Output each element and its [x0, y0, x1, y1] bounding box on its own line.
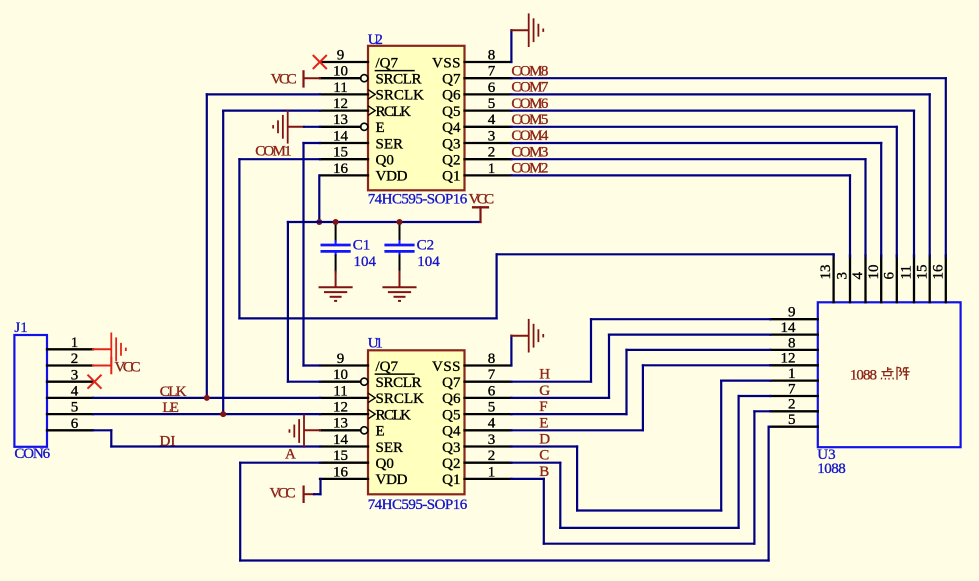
net label LE	[162, 400, 179, 416]
U3 pin 9 left stub + number	[770, 305, 818, 321]
svg-text:Q7: Q7	[442, 72, 461, 88]
junction CLK	[204, 395, 210, 401]
net label COM7	[511, 80, 549, 96]
capacitor C1	[321, 222, 351, 272]
svg-text:/Q7: /Q7	[376, 359, 399, 375]
ground at U2.VSS	[511, 13, 543, 47]
svg-text:7: 7	[488, 367, 496, 383]
svg-text:1: 1	[788, 366, 796, 382]
net COM2 wire U2 to U3	[511, 175, 850, 256]
svg-text:COM2: COM2	[511, 161, 548, 177]
svg-text:G: G	[539, 383, 550, 399]
svg-text:Q6: Q6	[442, 88, 461, 104]
svg-text:74HC595-SOP16: 74HC595-SOP16	[368, 497, 468, 513]
U1 pin 9 (/Q7) stub + number + name	[320, 351, 414, 375]
svg-text:C: C	[539, 448, 549, 464]
U1 pin 13 (E) stub + number + name	[320, 416, 385, 440]
svg-text:3: 3	[835, 272, 851, 280]
U1 pin 12 (RCLK) stub + number + name	[320, 400, 411, 424]
svg-text:9: 9	[337, 351, 345, 367]
U3 pin 10 top stub + number	[866, 255, 882, 302]
U1 pin 11 (SRCLK) stub + number + name	[320, 383, 424, 407]
svg-text:Q4: Q4	[442, 120, 461, 136]
svg-text:COM5: COM5	[511, 112, 548, 128]
svg-text:6: 6	[488, 80, 496, 96]
svg-text:4: 4	[850, 272, 866, 280]
U1 pin 14 (SER) stub + number + name	[320, 432, 403, 456]
U2 pin 16 (VDD) stub + number + name	[320, 161, 408, 185]
svg-text:2: 2	[788, 397, 796, 413]
svg-text:Q1: Q1	[442, 472, 460, 488]
net label B	[539, 464, 549, 480]
net label COM2	[511, 161, 548, 177]
svg-text:9: 9	[337, 47, 345, 63]
J1 pin 4 stub + number	[47, 384, 93, 400]
svg-text:11: 11	[333, 80, 347, 96]
svg-text:U2: U2	[368, 32, 383, 48]
svg-text:5: 5	[488, 400, 496, 416]
U1 pin 2 (Q2) stub + number + name	[442, 448, 511, 472]
svg-text:14: 14	[333, 432, 349, 448]
net LE branch vertical to U2.12	[223, 111, 320, 415]
ground below C1	[319, 272, 353, 301]
U3 pin 1 left stub + number	[770, 366, 818, 382]
svg-text:COM8: COM8	[511, 63, 548, 79]
svg-text:16: 16	[333, 464, 349, 480]
svg-text:VCC: VCC	[271, 71, 297, 87]
IC U2 74HC595-SOP16 body	[368, 46, 465, 191]
net LE wire J1.5 to U1.12	[93, 413, 320, 415]
svg-text:14: 14	[781, 320, 797, 336]
U1 pin 3 (Q3) stub + number + name	[442, 432, 511, 456]
net G wire U1 to U3	[511, 335, 770, 398]
svg-text:E: E	[376, 120, 385, 136]
net E wire U1 to U3	[511, 365, 770, 430]
svg-text:11: 11	[333, 383, 347, 399]
U3 pin 8 left stub + number	[770, 335, 818, 351]
svg-text:8: 8	[488, 351, 496, 367]
net H wire U1 to U3	[511, 319, 770, 382]
U3 pin 7 left stub + number	[770, 381, 818, 397]
svg-text:5: 5	[71, 400, 79, 416]
svg-text:SRCLK: SRCLK	[376, 391, 425, 407]
U3 pin 16 top stub + number	[930, 255, 946, 302]
U2 pin 3 (Q3) stub + number + name	[442, 128, 511, 152]
U1 pin 1 (Q1) stub + number + name	[442, 464, 511, 488]
U3 pin 12 left stub + number	[770, 351, 818, 367]
VCC label at J1 pin2	[115, 360, 141, 376]
U2 pin 2 (Q2) stub + number + name	[442, 145, 511, 169]
net label COM3	[511, 144, 548, 160]
svg-text:16: 16	[930, 264, 946, 280]
C2 designator	[417, 238, 435, 254]
power port VCC at U1.VDD	[304, 486, 314, 504]
svg-text:104: 104	[417, 254, 440, 270]
U2 pin 4 (Q4) stub + number + name	[442, 112, 511, 136]
svg-text:Q7: Q7	[442, 375, 461, 391]
junction VCC rail / C2	[397, 219, 403, 225]
svg-text:E: E	[539, 415, 548, 431]
U1 pin 7 (Q7) stub + number + name	[442, 367, 511, 391]
svg-text:Q0: Q0	[376, 456, 394, 472]
U2 pin 11 (SRCLK) stub + number + name	[320, 80, 424, 104]
label 1088 dot-matrix (1088 DianZhen) inside U3	[850, 367, 910, 384]
svg-text:6: 6	[881, 272, 897, 280]
net label COM1	[255, 144, 291, 160]
svg-text:J1: J1	[14, 320, 27, 336]
svg-text:SER: SER	[376, 136, 404, 152]
IC U1 74HC595-SOP16 body	[368, 350, 465, 494]
net B wire U1 to U3	[511, 411, 770, 543]
svg-text:COM7: COM7	[511, 80, 549, 96]
wire U1.VSS to ground	[510, 336, 512, 366]
svg-text:U1: U1	[368, 336, 383, 352]
ground at U1.E pin13	[289, 414, 320, 448]
svg-text:2: 2	[488, 145, 496, 161]
svg-text:D: D	[539, 432, 550, 448]
svg-text:6: 6	[488, 383, 496, 399]
svg-text:13: 13	[818, 265, 834, 280]
U2 pin 10 (SRCLR) stub + number + name	[320, 64, 422, 88]
net CLK wire J1.4 to U1.11	[93, 397, 320, 399]
U3 pin 14 left stub + number	[770, 320, 818, 336]
svg-text:LE: LE	[162, 400, 179, 416]
U2 pin 6 (Q6) stub + number + name	[442, 80, 511, 104]
power port VCC (bar style) on rail	[472, 207, 489, 222]
value CON6 of J1	[14, 446, 50, 462]
svg-text:VDD: VDD	[376, 169, 408, 185]
U3 pin 4 top stub + number	[850, 255, 866, 302]
svg-text:VCC: VCC	[115, 360, 141, 376]
svg-text:16: 16	[333, 161, 349, 177]
svg-text:A: A	[285, 446, 296, 462]
svg-text:VCC: VCC	[270, 486, 296, 502]
svg-text:SER: SER	[376, 440, 404, 456]
svg-text:Q5: Q5	[442, 104, 460, 120]
svg-text:DI: DI	[160, 433, 176, 449]
U1 pin 8 (VSS) stub + number + name	[432, 351, 511, 375]
net label G	[539, 383, 550, 399]
U3 pin 2 left stub + number	[770, 397, 818, 413]
U2 pin 7 (Q7) stub + number + name	[442, 64, 511, 88]
svg-text:COM6: COM6	[511, 96, 549, 112]
refdes U2	[368, 32, 383, 48]
wire U1.Q0 loop to U3 pin 5	[240, 427, 770, 561]
U1 pin 5 (Q5) stub + number + name	[442, 400, 511, 424]
junction LE	[220, 411, 226, 417]
svg-text:8: 8	[788, 335, 796, 351]
U2 pin 9 (/Q7) stub + number + name	[320, 47, 414, 71]
svg-text:SRCLR: SRCLR	[376, 375, 422, 391]
svg-text:3: 3	[488, 128, 496, 144]
svg-text:B: B	[539, 464, 549, 480]
U1 pin 4 (Q4) stub + number + name	[442, 416, 511, 440]
refdes U1	[368, 336, 383, 352]
wire U1./Q7 cascade to U2.SER (net COM1)	[304, 143, 321, 366]
svg-text:15: 15	[333, 145, 348, 161]
no-connect X at J1 pin3	[88, 375, 102, 389]
svg-text:E: E	[376, 424, 385, 440]
wire VCC rail down to U1.SRCLR	[288, 222, 320, 382]
value 1088 of U3	[817, 461, 845, 477]
U3 pin 13 top stub + number	[818, 255, 834, 302]
U2 pin 13 (E) stub + number + name	[320, 112, 385, 136]
net label COM8	[511, 63, 548, 79]
svg-text:VDD: VDD	[376, 472, 408, 488]
refdes U3	[817, 447, 835, 463]
svg-text:COM3: COM3	[511, 144, 548, 160]
value-suffix VCC text next to 74HC595-SOP16 of U2	[469, 191, 495, 207]
svg-text:13: 13	[333, 416, 348, 432]
ground at U2.E pin13	[273, 110, 320, 144]
VCC label at U2.SRCLR	[271, 71, 297, 87]
svg-text:C1: C1	[353, 238, 371, 254]
dot-matrix U3 1088 body	[818, 302, 961, 447]
U2 pin 14 (SER) stub + number + name	[320, 128, 403, 152]
U3 pin 6 top stub + number	[881, 255, 897, 302]
svg-text:5: 5	[488, 96, 496, 112]
svg-text:7: 7	[488, 64, 496, 80]
svg-text:4: 4	[71, 384, 79, 400]
C2 value 104	[417, 254, 440, 270]
svg-text:1: 1	[71, 335, 79, 351]
svg-text:6: 6	[71, 416, 79, 432]
capacitor C2	[384, 222, 414, 272]
svg-text:8: 8	[488, 47, 496, 63]
VCC rail wire	[288, 221, 481, 223]
svg-text:Q2: Q2	[442, 456, 460, 472]
svg-text:Q3: Q3	[442, 440, 460, 456]
net label D	[539, 432, 550, 448]
svg-text:1: 1	[488, 161, 496, 177]
U2 pin 5 (Q5) stub + number + name	[442, 96, 511, 120]
svg-text:1: 1	[488, 464, 496, 480]
U1 pin 15 (Q0) stub + number + name	[320, 448, 394, 472]
U1 pin 6 (Q6) stub + number + name	[442, 383, 511, 407]
no-connect X at U2 pin9	[313, 55, 327, 69]
svg-text:9: 9	[788, 305, 796, 321]
svg-text:Q6: Q6	[442, 391, 461, 407]
U2 pin 8 (VSS) stub + number + name	[432, 47, 511, 71]
svg-text:F: F	[539, 399, 547, 415]
junction VCC rail / C1	[333, 219, 339, 225]
svg-text:1088: 1088	[817, 461, 845, 477]
U1 pin 10 (SRCLR) stub + number + name	[320, 367, 422, 391]
svg-text:SRCLR: SRCLR	[376, 72, 422, 88]
svg-text:4: 4	[488, 112, 496, 128]
svg-text:COM1: COM1	[255, 144, 291, 160]
svg-text:3: 3	[71, 367, 79, 383]
U2 pin 12 (RCLK) stub + number + name	[320, 96, 411, 120]
net label COM5	[511, 112, 548, 128]
svg-text:C2: C2	[417, 238, 435, 254]
J1 pin 3 stub + number	[47, 367, 93, 383]
svg-text:Q3: Q3	[442, 136, 460, 152]
J1 pin 5 stub + number	[47, 400, 93, 416]
svg-text:VSS: VSS	[432, 55, 461, 71]
svg-text:H: H	[539, 367, 550, 383]
net COM7 wire U2 to U3	[511, 94, 929, 256]
wire VCC to U1.VDD pin16	[314, 479, 321, 494]
svg-text:14: 14	[333, 128, 349, 144]
net F wire U1 to U3	[511, 350, 770, 414]
J1 pin 2 stub + number	[47, 351, 93, 367]
net C wire U1 to U3	[511, 396, 770, 528]
U3 pin 3 top stub + number	[835, 255, 851, 302]
svg-text:Q0: Q0	[376, 153, 394, 169]
wire U2.VDD down to VCC rail	[318, 175, 320, 222]
junction VCC rail / U2.VDD	[316, 219, 322, 225]
svg-text:13: 13	[333, 112, 348, 128]
svg-text:1088: 1088	[850, 367, 877, 383]
net label DI	[160, 433, 176, 449]
svg-text:2: 2	[71, 351, 79, 367]
svg-text:5: 5	[788, 412, 796, 428]
ground at U1.VSS	[511, 319, 543, 353]
svg-text:2: 2	[488, 448, 496, 464]
net CLK branch vertical to U2.11	[207, 94, 320, 398]
svg-text:Q2: Q2	[442, 153, 460, 169]
net label F	[539, 399, 547, 415]
svg-text:/Q7: /Q7	[376, 55, 399, 71]
svg-text:SRCLK: SRCLK	[376, 88, 425, 104]
svg-text:11: 11	[899, 265, 915, 279]
net label A on U1 SER wire	[285, 446, 296, 462]
net label CLK	[160, 384, 187, 400]
U3 pin 15 top stub + number	[914, 255, 930, 302]
svg-text:Q4: Q4	[442, 424, 461, 440]
svg-text:Q5: Q5	[442, 407, 460, 423]
svg-text:10: 10	[866, 265, 882, 280]
J1 pin 6 stub + number	[47, 416, 93, 432]
svg-text:VSS: VSS	[432, 359, 461, 375]
U2 pin 15 (Q0) stub + number + name	[320, 145, 394, 169]
refdes J1	[14, 320, 27, 336]
svg-text:12: 12	[333, 96, 348, 112]
net label E	[539, 415, 548, 431]
U1 pin 16 (VDD) stub + number + name	[320, 464, 408, 488]
VCC label at U1.VDD	[270, 486, 296, 502]
U2 pin 1 (Q1) stub + number + name	[442, 161, 511, 185]
net COM3 wire U2 to U3	[511, 159, 865, 256]
svg-text:12: 12	[781, 351, 796, 367]
svg-text:3: 3	[488, 432, 496, 448]
svg-text:Q1: Q1	[442, 169, 460, 185]
svg-text:15: 15	[333, 448, 348, 464]
svg-text:COM4: COM4	[511, 128, 549, 144]
svg-text:VCC: VCC	[469, 191, 495, 207]
svg-text:10: 10	[333, 64, 348, 80]
svg-text:4: 4	[488, 416, 496, 432]
connector J1 CON6 body	[14, 335, 47, 447]
net COM6 wire U2 to U3	[511, 111, 914, 257]
ground below C2	[382, 272, 416, 301]
net label COM6	[511, 96, 549, 112]
net DI wire J1.6 to U1.14 SER	[93, 430, 320, 446]
svg-text:RCLK: RCLK	[376, 407, 412, 423]
power port VCC at J1 pin2 (bright red bar)	[93, 357, 111, 375]
svg-text:10: 10	[333, 367, 348, 383]
power port VCC at U2.SRCLR pin10	[304, 70, 321, 87]
wire U2.VSS to ground	[510, 30, 512, 62]
svg-text:12: 12	[333, 400, 348, 416]
ground at J1 pin1 (bright red)	[93, 333, 126, 367]
svg-text:104: 104	[354, 254, 377, 270]
wire U2.Q0 to U3 pin 13	[239, 159, 833, 318]
C1 designator	[353, 238, 371, 254]
svg-text:15: 15	[914, 265, 930, 280]
net D wire U1 to U3	[511, 381, 770, 511]
U3 pin 11 top stub + number	[899, 255, 915, 302]
net COM5 wire U2 to U3	[511, 127, 896, 257]
svg-text:RCLK: RCLK	[376, 104, 412, 120]
svg-text:7: 7	[788, 381, 796, 397]
svg-text:74HC595-SOP16: 74HC595-SOP16	[368, 191, 468, 207]
net label COM4	[511, 128, 549, 144]
C1 value 104	[354, 254, 377, 270]
value 74HC595-SOP16 of U2	[368, 191, 468, 207]
svg-text:CLK: CLK	[160, 384, 187, 400]
J1 pin 1 stub + number	[47, 335, 93, 351]
value 74HC595-SOP16 of U1	[368, 497, 468, 513]
U3 pin 5 left stub + number	[770, 412, 818, 428]
net COM8 wire U2 to U3	[511, 78, 945, 256]
svg-text:CON6: CON6	[14, 446, 50, 462]
net COM4 wire U2 to U3	[511, 143, 881, 256]
net label C	[539, 448, 549, 464]
net label H	[539, 367, 550, 383]
